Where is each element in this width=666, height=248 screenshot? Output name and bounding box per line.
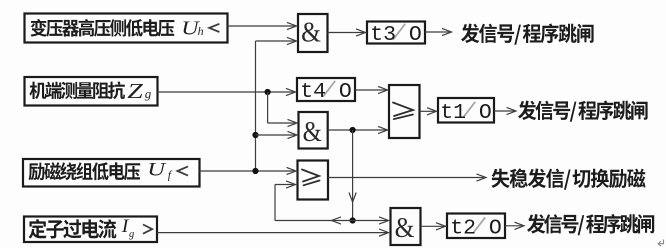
AND gate U5 (bottom &amp;) <box>391 208 421 245</box>
wire t3/0 output arrow <box>425 28 452 35</box>
input box: 机端测量阻抗 Zg <box>25 77 158 106</box>
junction dot on node A for AND U2 <box>252 132 258 138</box>
input box: 变压器高压侧低电压 Uh&lt; <box>25 14 228 43</box>
svg-text:Z: Z <box>127 80 144 103</box>
svg-text:U: U <box>147 158 167 180</box>
wire t1/0 output arrow <box>494 107 516 114</box>
label 发信号/程序跳闸 (top) <box>461 24 594 45</box>
wire t4/0 output to OR U4 input 1 <box>355 86 388 93</box>
svg-text:g: g <box>129 229 134 240</box>
wire vertical from AND U2 output down to node B <box>349 130 356 221</box>
wire box4 to AND U5 input 2 <box>157 229 389 236</box>
svg-text:&: & <box>301 16 321 48</box>
wire node B feedback to OR U3 input 2 <box>275 181 353 224</box>
node B junction dot <box>350 217 356 223</box>
wire OR U3 output arrow (to instability label) <box>328 174 486 181</box>
OR gate U3 (&#8805; middle-left) <box>298 161 329 200</box>
input box: 励磁绕组低电压 Uf&lt; <box>23 158 200 186</box>
wire box2 to t4/0 <box>158 88 296 95</box>
svg-text:&: & <box>395 211 415 243</box>
AND gate U2 (middle &amp;) <box>299 112 328 149</box>
paragraph return mark <box>658 240 663 247</box>
label 发信号/程序跳闸 (bottom) <box>527 214 654 235</box>
timer box t3/0 <box>367 22 425 48</box>
AND gate U1 (top &amp;) <box>298 14 328 52</box>
wire t2/0 output arrow <box>505 222 524 229</box>
svg-text:h: h <box>198 24 204 38</box>
svg-text:t2 O: t2 O <box>450 217 502 241</box>
svg-text:t1 O: t1 O <box>440 101 492 125</box>
wire AND U2 output to OR U4 input 2 <box>328 126 388 133</box>
junction dot on AND U2 output <box>350 127 356 133</box>
svg-text:&: & <box>303 116 323 147</box>
svg-text:t4 O: t4 O <box>300 80 352 104</box>
timer box t2/0 <box>447 214 505 241</box>
wire node B to AND U5 input 1 <box>353 217 389 224</box>
wire AND U1 input 2 from node A <box>256 37 297 44</box>
wire AND U5 output to t2/0 <box>421 223 446 230</box>
wire box1 to AND U1 input 1 <box>228 22 297 29</box>
label 失稳发信/切换励磁 <box>492 169 646 190</box>
OR gate U4 (&#8805; right) <box>389 85 420 138</box>
wire Zg branch to AND U2 input 1 <box>268 92 297 127</box>
wire box3 to OR U3 input 1 <box>200 167 297 174</box>
timer box t1/0 <box>438 98 494 125</box>
wire node A to AND U2 input 2 <box>256 131 298 138</box>
junction dot on Zg line <box>265 89 271 95</box>
timer box t4/0 <box>297 78 355 104</box>
wire AND U1 output to t3/0 <box>328 29 366 36</box>
svg-text:g: g <box>145 86 152 101</box>
svg-text:t3 O: t3 O <box>370 23 422 47</box>
wire OR U4 output to t1/0 <box>420 108 437 115</box>
junction dot node A on Uf line <box>252 168 258 174</box>
input box: 定子过电流 Ig&gt; <box>24 216 157 242</box>
wire node A vertical (Uf bus x=255.5) <box>255 41 257 171</box>
label 发信号/程序跳闸 (middle) <box>518 101 648 122</box>
